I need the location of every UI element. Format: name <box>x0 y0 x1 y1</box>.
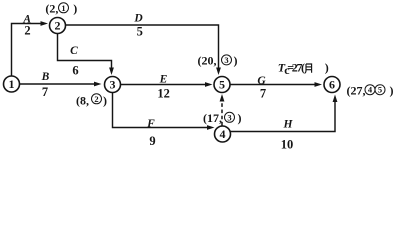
svg-text:5: 5 <box>137 25 143 39</box>
svg-text:): ) <box>238 111 242 125</box>
svg-text:): ) <box>390 84 394 98</box>
svg-text:3: 3 <box>227 113 231 123</box>
svg-text:7: 7 <box>42 85 48 99</box>
svg-text:(8,: (8, <box>76 94 89 108</box>
svg-text:(2,: (2, <box>45 2 58 16</box>
svg-text:F: F <box>146 118 155 130</box>
svg-text:2: 2 <box>94 94 98 104</box>
svg-text:12: 12 <box>157 86 170 100</box>
svg-text:): ) <box>234 53 238 67</box>
svg-text:B: B <box>41 71 50 83</box>
svg-text:3: 3 <box>110 78 116 92</box>
svg-text:4: 4 <box>220 127 226 141</box>
svg-text:): ) <box>103 94 107 108</box>
svg-text:10: 10 <box>281 137 294 151</box>
svg-text:6: 6 <box>329 78 335 92</box>
svg-text:(17,: (17, <box>203 111 222 125</box>
svg-text:5: 5 <box>219 78 225 92</box>
svg-text:G: G <box>257 75 266 87</box>
svg-text:6: 6 <box>72 63 78 77</box>
svg-text:2: 2 <box>24 23 30 37</box>
svg-text:E: E <box>159 74 168 86</box>
svg-text:(: ( <box>301 61 305 75</box>
svg-text:): ) <box>325 61 329 75</box>
svg-text:D: D <box>133 13 143 25</box>
svg-text:1: 1 <box>61 3 65 13</box>
svg-text:C: C <box>70 45 78 57</box>
svg-text:H: H <box>283 118 294 130</box>
svg-text:): ) <box>73 2 77 16</box>
svg-text:7: 7 <box>260 87 266 101</box>
svg-text:(27,: (27, <box>347 84 366 98</box>
svg-text:3: 3 <box>224 55 228 65</box>
svg-text:1: 1 <box>9 77 15 91</box>
svg-text:2: 2 <box>55 19 61 33</box>
svg-text:(20,: (20, <box>198 53 217 67</box>
svg-text:5: 5 <box>378 85 382 95</box>
svg-text:9: 9 <box>149 134 155 148</box>
